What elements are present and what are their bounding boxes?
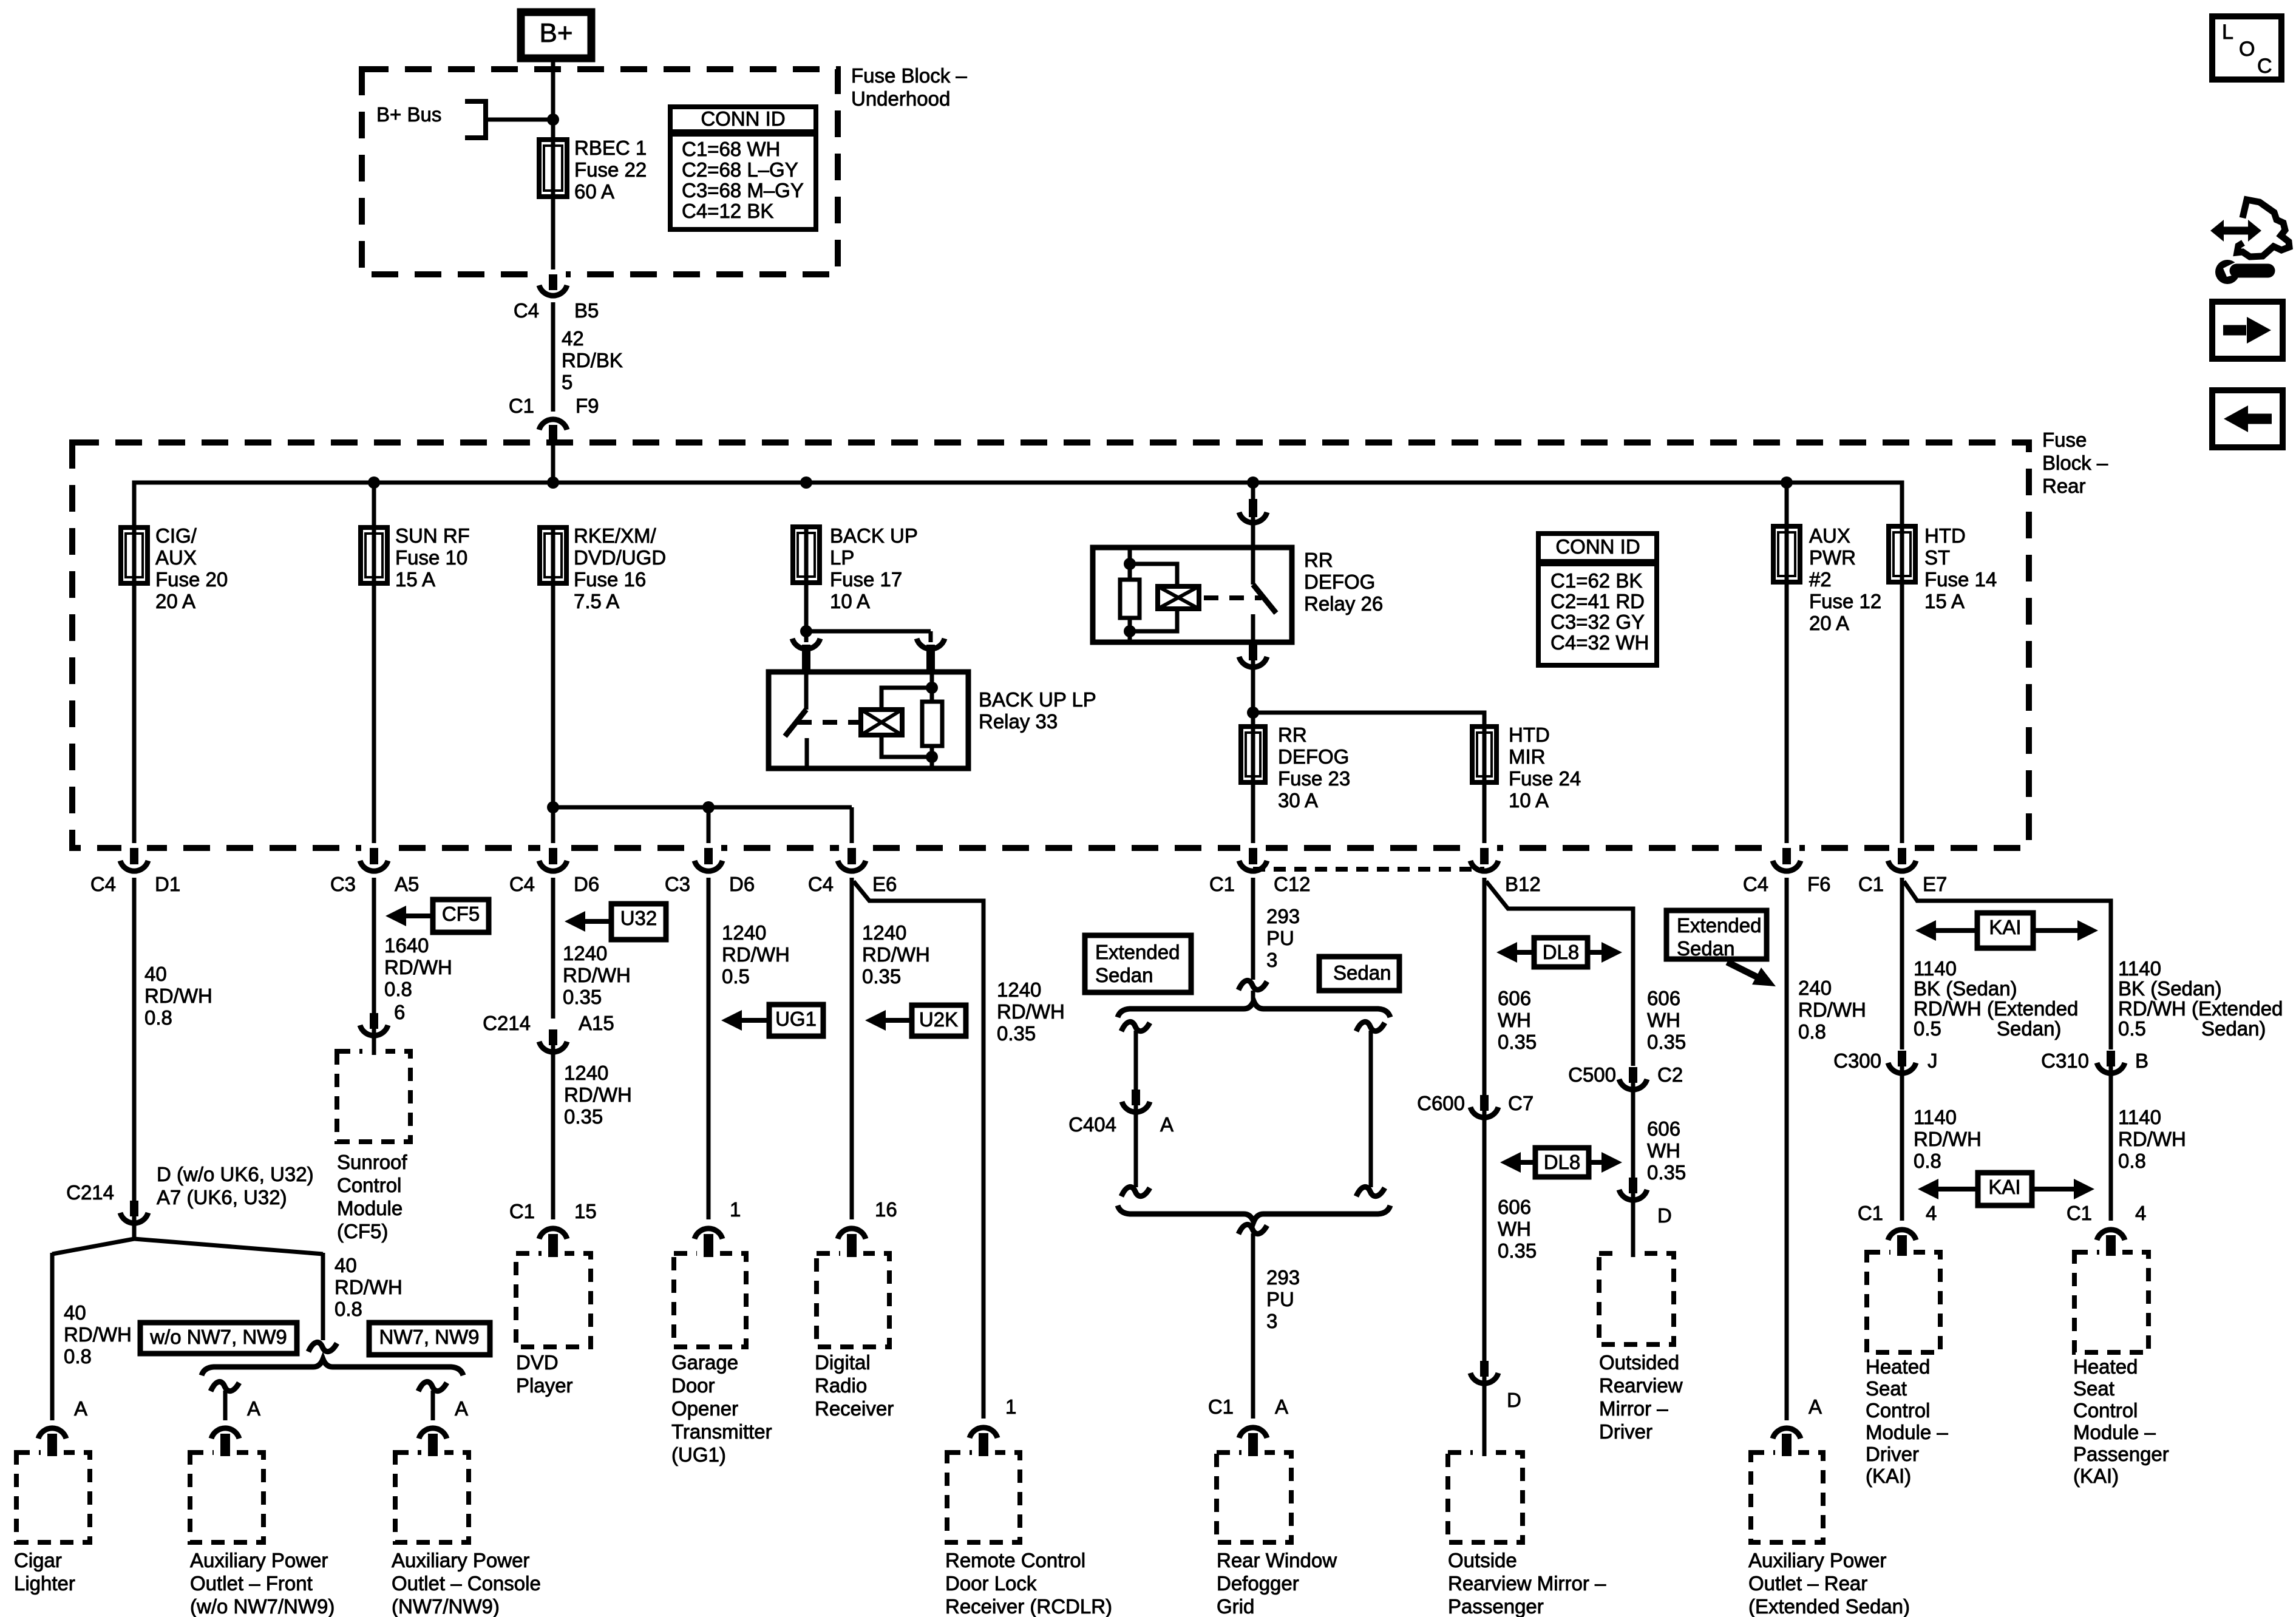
svg-text:DVD/UGD: DVD/UGD xyxy=(574,546,666,569)
svg-text:D (w/o UK6, U32): D (w/o UK6, U32) xyxy=(157,1163,314,1185)
svg-text:(KAI): (KAI) xyxy=(1866,1465,1911,1487)
svg-text:240: 240 xyxy=(1798,977,1832,999)
svg-text:PWR: PWR xyxy=(1809,546,1856,569)
label F6 xyxy=(1807,873,1831,895)
svg-text:Fuse 20: Fuse 20 xyxy=(155,568,228,591)
svg-text:0.35: 0.35 xyxy=(564,1105,603,1128)
svg-text:O: O xyxy=(2239,38,2255,61)
svg-text:AUX: AUX xyxy=(155,546,197,569)
connector C3/D6 xyxy=(695,843,722,871)
svg-text:B: B xyxy=(2135,1049,2148,1072)
connector 1 rcdlr xyxy=(970,1428,997,1453)
svg-text:1240: 1240 xyxy=(564,1062,608,1084)
label RR DEFOG Fuse 23 30A xyxy=(1278,724,1350,812)
svg-text:RD/WH: RD/WH xyxy=(2118,1128,2186,1150)
label dvd player xyxy=(516,1351,573,1397)
svg-text:40: 40 xyxy=(335,1254,357,1276)
svg-text:Heated: Heated xyxy=(2073,1355,2138,1378)
wire bus tap xyxy=(486,118,553,122)
svg-text:Fuse 22: Fuse 22 xyxy=(574,158,647,181)
svg-text:BACK UP: BACK UP xyxy=(830,524,918,547)
wire into driver mirror xyxy=(1631,1193,1635,1253)
svg-text:DEFOG: DEFOG xyxy=(1278,745,1349,768)
label 1240 RD/WH 0.35 rcdlr xyxy=(997,978,1065,1045)
B+ bus bracket xyxy=(465,101,486,138)
svg-text:Rear: Rear xyxy=(2042,475,2086,497)
svg-text:RD/WH: RD/WH xyxy=(997,1000,1065,1023)
break symbol sedan branch bottom xyxy=(1356,1187,1385,1196)
svg-text:C4: C4 xyxy=(514,299,539,322)
wire 1640 RD/WH xyxy=(372,878,376,1014)
label D driver xyxy=(1657,1204,1672,1227)
svg-text:C1: C1 xyxy=(1858,1202,1883,1224)
label 1240 RD/WH 0.35 radio xyxy=(862,921,930,988)
pin patch mirror passenger xyxy=(1473,1448,1496,1457)
dvd player box xyxy=(516,1253,591,1347)
wire fuse 20 down xyxy=(132,581,137,849)
svg-text:HTD: HTD xyxy=(1509,724,1550,746)
wire radio branch drop xyxy=(850,807,854,849)
svg-text:C1=62 BK: C1=62 BK xyxy=(1550,569,1642,592)
connector C4/B5 xyxy=(539,269,567,296)
wire 1140 driver lower xyxy=(1900,1066,1904,1221)
svg-text:293: 293 xyxy=(1266,905,1300,927)
fuse F14 HTD ST xyxy=(1889,526,1915,582)
svg-text:C7: C7 xyxy=(1508,1092,1533,1114)
fuse F23 RR DEFOG xyxy=(1241,727,1265,782)
wire relay 26 to fuse 23 xyxy=(1251,660,1255,728)
svg-text:A7 (UK6, U32): A7 (UK6, U32) xyxy=(157,1186,287,1209)
connector D passenger xyxy=(1470,1361,1498,1383)
connector C1/4 passenger xyxy=(2097,1230,2125,1252)
svg-text:PU: PU xyxy=(1266,927,1294,949)
svg-text:1240: 1240 xyxy=(722,921,766,944)
fuse F16 RKE/XM/DVD/UGD xyxy=(540,527,566,583)
outside rearview mirror driver box xyxy=(1599,1253,1674,1344)
relay 33 BACK UP LP box xyxy=(769,672,968,768)
svg-text:0.8: 0.8 xyxy=(64,1345,92,1368)
svg-text:1640: 1640 xyxy=(384,934,429,957)
svg-text:RD/WH: RD/WH xyxy=(564,1083,632,1106)
label HTD MIR Fuse 24 10A xyxy=(1509,724,1581,812)
break symbol C404 branch top xyxy=(1121,1022,1150,1031)
connector C4/F6 xyxy=(1773,843,1801,871)
relay 33 actuator dashed xyxy=(797,720,860,725)
svg-text:B+ Bus: B+ Bus xyxy=(376,103,441,126)
svg-text:Sedan): Sedan) xyxy=(1997,1017,2061,1040)
label fuse block underhood xyxy=(851,64,967,110)
svg-text:0.5: 0.5 xyxy=(722,965,750,988)
label C500 xyxy=(1568,1063,1616,1086)
junction garage branch xyxy=(702,801,715,813)
B+ power symbol xyxy=(521,12,591,58)
svg-text:RBEC 1: RBEC 1 xyxy=(574,137,647,159)
next-page arrow box xyxy=(2212,302,2283,359)
svg-text:A: A xyxy=(1809,1395,1822,1418)
label F9 xyxy=(576,395,599,417)
relay 33 junction top xyxy=(926,682,938,694)
svg-text:Module –: Module – xyxy=(1866,1421,1948,1443)
connector B12 xyxy=(1470,843,1498,871)
relay 33 coil top link xyxy=(881,688,932,710)
option box w/o NW7 NW9 xyxy=(140,1323,297,1354)
connector C310/B xyxy=(2097,1051,2125,1073)
svg-text:Heated: Heated xyxy=(1866,1355,1930,1378)
svg-text:WH: WH xyxy=(1647,1009,1680,1031)
svg-text:1140: 1140 xyxy=(2118,957,2161,980)
svg-text:606: 606 xyxy=(1498,987,1531,1009)
wire 1240 RD/WH dvd upper xyxy=(551,878,555,1019)
connector 6 sunroof xyxy=(360,1013,388,1036)
svg-text:(KAI): (KAI) xyxy=(2073,1465,2119,1487)
svg-text:606: 606 xyxy=(1647,1117,1680,1140)
svg-text:Fuse 12: Fuse 12 xyxy=(1809,590,1881,612)
sedan option box xyxy=(1319,957,1399,991)
wire to outlet split xyxy=(321,1253,325,1340)
svg-text:Door: Door xyxy=(671,1374,715,1397)
svg-text:AUX: AUX xyxy=(1809,524,1850,547)
fuse F22 RBEC 1 60A xyxy=(539,140,567,197)
label 16 radio xyxy=(875,1198,897,1221)
svg-text:WH: WH xyxy=(1498,1009,1531,1031)
svg-text:C4: C4 xyxy=(509,873,535,895)
svg-text:DL8: DL8 xyxy=(1544,1151,1581,1173)
svg-text:Outlet – Rear: Outlet – Rear xyxy=(1748,1572,1867,1595)
svg-text:(w/o NW7/NW9): (w/o NW7/NW9) xyxy=(190,1595,335,1617)
wire to brace xyxy=(1251,991,1255,1003)
svg-text:RD/BK: RD/BK xyxy=(562,349,623,371)
label RKE Fuse 16 7.5A xyxy=(574,524,666,612)
label 606 WH 0.35 driver upper xyxy=(1647,987,1686,1053)
label garage door opener xyxy=(671,1351,772,1466)
svg-text:RR: RR xyxy=(1304,549,1333,571)
label C1 xyxy=(1209,873,1235,895)
junction bus at AUX PWR xyxy=(1781,476,1793,489)
label 1140 BK RD/WH driver xyxy=(1914,957,2078,1040)
svg-text:DL8: DL8 xyxy=(1543,941,1580,963)
svg-text:16: 16 xyxy=(875,1198,897,1221)
wire backup relay horizontal xyxy=(806,629,931,634)
svg-text:D6: D6 xyxy=(729,873,755,895)
connector C404/A xyxy=(1122,1090,1150,1112)
connector C214/A15 xyxy=(539,1029,567,1052)
label rear window defogger grid xyxy=(1217,1549,1337,1617)
svg-text:RD/WH (Extended: RD/WH (Extended xyxy=(1914,997,2078,1020)
wire Y split xyxy=(52,1216,323,1254)
svg-text:DVD: DVD xyxy=(516,1351,559,1374)
pin patch sunroof xyxy=(362,1046,385,1056)
wire into sunroof module xyxy=(372,1028,376,1051)
svg-text:Opener: Opener xyxy=(671,1397,738,1420)
label outside rearview mirror passenger xyxy=(1448,1549,1606,1617)
svg-text:0.8: 0.8 xyxy=(2118,1150,2146,1172)
wire bus to AUX PWR fuse xyxy=(1785,483,1789,527)
connector A outlet console xyxy=(419,1428,447,1453)
heated seat control module driver box xyxy=(1867,1252,1940,1352)
label C1 defog xyxy=(1208,1395,1234,1418)
svg-text:Fuse 16: Fuse 16 xyxy=(574,568,646,591)
cigar lighter box xyxy=(16,1453,90,1542)
label 4 seat passenger xyxy=(2135,1202,2146,1224)
svg-text:C3=32 GY: C3=32 GY xyxy=(1550,611,1645,633)
svg-text:Extended: Extended xyxy=(1095,941,1180,963)
label C3 xyxy=(330,873,356,895)
connector C4/E6 xyxy=(838,843,866,871)
svg-text:KAI: KAI xyxy=(1989,916,2021,938)
svg-text:B5: B5 xyxy=(574,299,599,322)
svg-text:PU: PU xyxy=(1266,1288,1294,1310)
svg-text:Outsided: Outsided xyxy=(1599,1351,1679,1374)
connector C1/F9 xyxy=(539,419,567,447)
label A C404 xyxy=(1160,1113,1173,1136)
svg-text:1240: 1240 xyxy=(997,978,1041,1001)
svg-text:Fuse 10: Fuse 10 xyxy=(395,546,467,569)
svg-text:Auxiliary Power: Auxiliary Power xyxy=(392,1549,529,1571)
relay 26 junction bottom xyxy=(1124,625,1136,637)
svg-text:10 A: 10 A xyxy=(1509,789,1549,812)
label A15 dvd xyxy=(579,1012,614,1034)
label AUX PWR #2 Fuse 12 20A xyxy=(1809,524,1881,634)
wire 42 RD/BK xyxy=(551,302,555,412)
outside rearview mirror passenger box xyxy=(1448,1453,1523,1542)
connector C4/D6 xyxy=(539,843,567,871)
wire passenger branch xyxy=(1904,881,2111,1049)
svg-text:Control: Control xyxy=(337,1174,401,1196)
connector 16 radio xyxy=(838,1229,866,1253)
svg-text:7.5 A: 7.5 A xyxy=(574,590,619,612)
KAI double arrow upper xyxy=(1915,913,2098,948)
relay 33 switch xyxy=(785,672,807,768)
svg-text:A: A xyxy=(1275,1395,1288,1418)
label outside rearview mirror driver xyxy=(1599,1351,1683,1443)
svg-text:C3: C3 xyxy=(330,873,356,895)
relay 26 coil xyxy=(1158,586,1199,609)
relay 26 resistor xyxy=(1120,547,1140,642)
wire to outlet console xyxy=(431,1391,435,1420)
LOC legend box xyxy=(2212,16,2281,80)
break symbol defog top xyxy=(1238,980,1267,990)
svg-text:Underhood: Underhood xyxy=(851,87,950,110)
label 1240 RD/WH 0.35 dvd lower xyxy=(564,1062,632,1128)
label D/A7 options xyxy=(157,1163,314,1209)
wire bus to SUN RF fuse xyxy=(372,483,376,527)
CF5 option arrow xyxy=(385,900,489,932)
svg-text:C4: C4 xyxy=(1743,873,1768,895)
pin patch mirror driver xyxy=(1622,1249,1645,1258)
break symbol defog bottom xyxy=(1238,1224,1267,1234)
connector C300/J xyxy=(1888,1051,1916,1073)
svg-text:Sedan: Sedan xyxy=(1677,937,1734,960)
junction defog fuses xyxy=(1247,707,1259,719)
svg-text:Player: Player xyxy=(516,1374,573,1397)
svg-text:RD/WH: RD/WH xyxy=(384,956,452,978)
svg-text:KAI: KAI xyxy=(1988,1176,2020,1198)
break symbol outlet split xyxy=(308,1342,337,1352)
label 15 dvd xyxy=(574,1200,597,1222)
svg-text:Fuse 14: Fuse 14 xyxy=(1924,568,1997,591)
svg-text:60 A: 60 A xyxy=(574,180,614,203)
svg-text:0.8: 0.8 xyxy=(144,1006,172,1029)
relay 26 coil bottom link xyxy=(1130,609,1177,631)
svg-text:Rear Window: Rear Window xyxy=(1217,1549,1337,1571)
svg-text:0.35: 0.35 xyxy=(563,986,602,1008)
wire fuse 24 down xyxy=(1483,782,1487,849)
svg-text:40: 40 xyxy=(144,963,167,985)
break symbol outlet console xyxy=(418,1381,447,1391)
junction RKE branch xyxy=(547,801,559,813)
pin patch cigar lighter xyxy=(41,1445,64,1457)
svg-text:C1: C1 xyxy=(1208,1395,1234,1418)
svg-text:10 A: 10 A xyxy=(830,590,870,612)
relay 26 switch xyxy=(1253,547,1276,642)
svg-text:C4=12 BK: C4=12 BK xyxy=(682,200,773,222)
svg-text:WH: WH xyxy=(1498,1218,1531,1240)
svg-text:RD/WH: RD/WH xyxy=(1914,1128,1982,1150)
svg-text:C12: C12 xyxy=(1274,873,1311,895)
label aux power outlet rear xyxy=(1748,1549,1910,1617)
svg-text:1: 1 xyxy=(1005,1395,1016,1418)
wire to outlet front xyxy=(223,1391,228,1420)
label 1 rcdlr xyxy=(1005,1395,1016,1418)
label E7 xyxy=(1923,873,1947,895)
remote control door lock receiver box xyxy=(947,1453,1020,1542)
svg-text:0.35: 0.35 xyxy=(1498,1031,1537,1053)
svg-text:RD/WH: RD/WH xyxy=(862,943,930,966)
svg-text:Relay 33: Relay 33 xyxy=(979,710,1058,733)
svg-text:30 A: 30 A xyxy=(1278,789,1318,812)
svg-text:HTD: HTD xyxy=(1924,524,1966,547)
relay 33 coil bottom link xyxy=(881,735,932,757)
svg-text:ST: ST xyxy=(1924,546,1950,569)
label C1 seat passenger xyxy=(2067,1202,2092,1224)
label CIG/AUX Fuse 20 20A xyxy=(155,524,228,612)
svg-text:A: A xyxy=(74,1397,87,1420)
wire 293 PU lower xyxy=(1251,1233,1255,1419)
wire 240 RD/WH xyxy=(1785,878,1789,1420)
junction bus at BACK UP LP xyxy=(800,476,812,489)
label C4 xyxy=(1743,873,1768,895)
pin patch outlet console xyxy=(421,1445,444,1457)
label C12 xyxy=(1274,873,1311,895)
svg-text:20 A: 20 A xyxy=(155,590,195,612)
label B+ Bus xyxy=(376,103,441,126)
wire 1240 RD/WH radio xyxy=(850,878,854,1219)
label 40 RD/WH 0.8 cig xyxy=(144,963,212,1029)
wire RKE branch horizontal xyxy=(553,805,852,810)
connector relay 33 left xyxy=(792,639,820,673)
connector C1/E7 xyxy=(1888,843,1916,871)
svg-text:C214: C214 xyxy=(483,1012,531,1034)
label aux power outlet front xyxy=(190,1549,335,1617)
junction bus at RKE xyxy=(547,476,559,489)
svg-text:40: 40 xyxy=(64,1301,86,1324)
svg-text:6: 6 xyxy=(394,1001,405,1023)
svg-text:C2=41 RD: C2=41 RD xyxy=(1550,590,1645,612)
svg-text:15 A: 15 A xyxy=(1924,590,1965,612)
wire 1140 driver upper xyxy=(1900,878,1904,1049)
connector C1/C12 xyxy=(1239,843,1267,871)
extended sedan callout box xyxy=(1666,910,1767,960)
fuse F12 AUX PWR #2 xyxy=(1773,526,1800,582)
connector C12 boundary notch xyxy=(1253,867,1484,872)
svg-text:Block –: Block – xyxy=(2042,452,2108,474)
svg-text:B12: B12 xyxy=(1505,873,1541,895)
svg-text:Sedan: Sedan xyxy=(1095,964,1153,986)
connector C1/A defog xyxy=(1239,1428,1267,1453)
svg-text:C2=68 L–GY: C2=68 L–GY xyxy=(682,158,798,181)
svg-text:0.35: 0.35 xyxy=(1498,1239,1537,1262)
svg-text:Outlet – Front: Outlet – Front xyxy=(190,1572,313,1595)
svg-text:C2: C2 xyxy=(1657,1063,1683,1086)
junction bus at RR DEFOG xyxy=(1247,476,1259,489)
label heated seat passenger xyxy=(2073,1355,2169,1487)
svg-text:E6: E6 xyxy=(872,873,897,895)
pin patch garage xyxy=(697,1246,720,1258)
UG1 option arrow xyxy=(721,1005,823,1036)
label C1 xyxy=(509,395,534,417)
connector A cigar lighter xyxy=(38,1428,66,1453)
svg-text:(UG1): (UG1) xyxy=(671,1443,726,1466)
svg-text:C4: C4 xyxy=(90,873,116,895)
pin patch outlet front xyxy=(214,1445,237,1457)
label 1 garage xyxy=(730,1198,741,1221)
svg-text:Seat: Seat xyxy=(2073,1377,2114,1400)
fuse F17 BACK UP LP xyxy=(793,527,820,583)
label 606 WH 0.35 passenger lower xyxy=(1498,1196,1537,1262)
wire into passenger mirror xyxy=(1483,1376,1487,1453)
label 1140 RD/WH 0.8 driver xyxy=(1914,1106,1982,1172)
label RBEC 1 Fuse 22 60 A xyxy=(574,137,647,203)
fuse F24 HTD MIR xyxy=(1472,727,1496,782)
wire bus to HTD ST fuse xyxy=(1900,483,1904,527)
svg-text:Fuse 17: Fuse 17 xyxy=(830,568,902,591)
svg-text:Module –: Module – xyxy=(2073,1421,2156,1443)
svg-text:CONN ID: CONN ID xyxy=(1555,535,1640,558)
svg-text:42: 42 xyxy=(562,327,584,350)
svg-text:606: 606 xyxy=(1647,987,1680,1009)
svg-text:D1: D1 xyxy=(155,873,180,895)
svg-text:Module: Module xyxy=(337,1197,402,1219)
heated seat control module passenger box xyxy=(2074,1252,2148,1352)
svg-text:MIR: MIR xyxy=(1509,745,1546,768)
svg-text:Receiver (RCDLR): Receiver (RCDLR) xyxy=(945,1595,1112,1617)
svg-text:(CF5): (CF5) xyxy=(337,1220,388,1242)
extended sedan option box xyxy=(1085,935,1191,992)
relay 26 RR DEFOG box xyxy=(1093,547,1292,642)
svg-text:0.35: 0.35 xyxy=(997,1022,1036,1045)
svg-text:Control: Control xyxy=(1866,1399,1930,1422)
svg-text:RD/WH: RD/WH xyxy=(1798,998,1866,1021)
label HTD ST Fuse 14 15A xyxy=(1924,524,1997,612)
svg-text:Radio: Radio xyxy=(815,1374,867,1397)
label 1240 RD/WH 0.5 xyxy=(722,921,790,988)
wire 1240 RD/WH garage xyxy=(707,878,711,1219)
svg-text:C4: C4 xyxy=(808,873,834,895)
wire to HTD MIR fuse xyxy=(1253,713,1484,727)
label 1240 RD/WH 0.35 dvd upper xyxy=(563,942,631,1008)
label C310 xyxy=(2041,1049,2089,1072)
svg-text:Receiver: Receiver xyxy=(815,1397,894,1420)
label 1640 RD/WH 0.8 xyxy=(384,934,452,1000)
svg-text:D: D xyxy=(1507,1389,1521,1411)
svg-text:CONN ID: CONN ID xyxy=(701,107,785,130)
label C4 xyxy=(808,873,834,895)
CONN ID table underhood xyxy=(670,107,816,229)
junction backup relay xyxy=(800,625,812,637)
wire bus to relay 26 xyxy=(1251,483,1255,500)
svg-text:C1=68 WH: C1=68 WH xyxy=(682,138,780,160)
wire relay33 pin86 drop xyxy=(929,631,933,642)
